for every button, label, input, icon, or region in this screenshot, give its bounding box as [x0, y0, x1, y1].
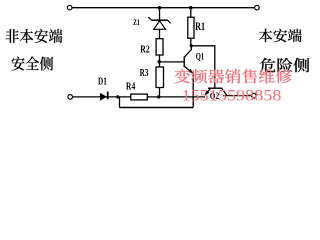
zener Z1	[148, 17, 170, 29]
svg-text:R2: R2	[140, 44, 150, 56]
text 本安端 (IS terminal)	[259, 29, 302, 43]
junction R4-R3 node	[157, 95, 160, 98]
junction top-R1	[189, 6, 192, 9]
svg-text:Q1: Q1	[196, 53, 205, 63]
wire Z1 branch vertical	[159, 8, 161, 97]
resistor R4	[131, 94, 148, 100]
terminal top-right	[255, 5, 260, 10]
wire Q2 collector to right terminal	[223, 95, 251, 97]
transistor Q1	[184, 46, 193, 73]
resistor R1	[188, 17, 194, 38]
diode D1	[100, 92, 108, 101]
junction top-Z1	[158, 6, 161, 9]
svg-text:Z1: Z1	[133, 17, 140, 27]
text 安全侧 (safe side)	[12, 56, 53, 70]
resistor R2	[156, 39, 163, 55]
junction D1-R4 node	[116, 95, 119, 98]
wire R1 branch vertical	[190, 8, 192, 46]
wire lower bypass left vertical	[119, 97, 121, 108]
transistor Q2	[205, 88, 227, 95]
text 非本安端 (non-IS terminal)	[5, 29, 62, 43]
svg-text:D1: D1	[98, 76, 107, 87]
wire Q1 base from divider	[159, 61, 184, 63]
wire Q1 emitter vertical	[192, 73, 194, 108]
terminal bottom-left	[68, 95, 73, 100]
svg-text:R1: R1	[195, 21, 205, 33]
svg-text:15515598858: 15515598858	[182, 86, 282, 105]
wire bottom rail left	[73, 96, 205, 98]
wire R1-node jog to Q2 base	[191, 46, 215, 88]
svg-text:R4: R4	[126, 81, 136, 92]
wire top rail	[72, 7, 254, 9]
terminal bottom-right	[252, 93, 257, 98]
wire lower bypass horizontal	[120, 107, 194, 109]
resistor R3	[156, 67, 164, 88]
svg-text:R3: R3	[140, 68, 149, 79]
watermark 变频器销售维修 (red)	[174, 69, 292, 83]
junction R2-R3 divider	[158, 60, 161, 63]
junction R1 bottom node	[190, 44, 193, 47]
terminal top-left	[67, 5, 72, 10]
text 危险侧 (hazard side)	[260, 58, 309, 72]
